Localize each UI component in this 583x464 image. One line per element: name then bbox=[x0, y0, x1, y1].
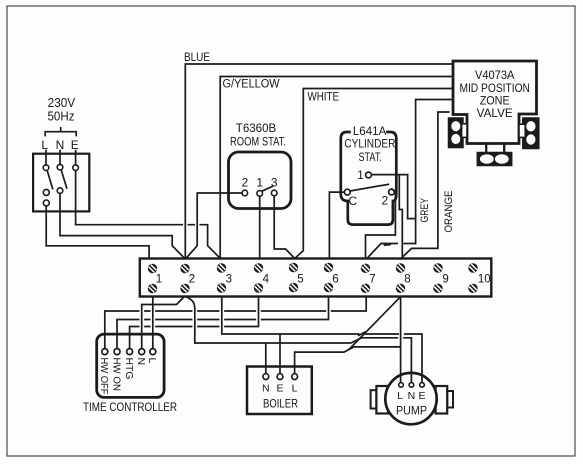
svg-text:BOILER: BOILER bbox=[263, 399, 298, 411]
cylinder stat switch arm bbox=[350, 184, 388, 191]
cylinder stat terminal 1 bbox=[366, 172, 372, 178]
wire TC L to terminal 1 bbox=[152, 297, 154, 349]
boiler L run to pump feed bbox=[295, 347, 401, 374]
svg-text:T6360B: T6360B bbox=[236, 123, 277, 135]
wire TC HTG to terminal 4 bbox=[130, 297, 259, 349]
mains terminal L bbox=[43, 165, 49, 171]
svg-text:2: 2 bbox=[381, 194, 388, 208]
wire room stat 2 to terminal 2 bbox=[187, 193, 242, 258]
svg-text:L: L bbox=[146, 358, 158, 364]
svg-text:CYLINDER: CYLINDER bbox=[344, 139, 395, 151]
svg-text:L641A: L641A bbox=[353, 126, 387, 138]
svg-text:6: 6 bbox=[332, 274, 338, 286]
TC terminal HW ON bbox=[114, 349, 120, 355]
valve right flange bbox=[523, 118, 539, 149]
earth run terminal 3 to boiler E and pump E bbox=[222, 297, 422, 383]
wire BLUE from valve to terminal 2 bbox=[185, 64, 453, 258]
svg-text:50Hz: 50Hz bbox=[48, 109, 75, 123]
svg-text:4: 4 bbox=[263, 274, 270, 286]
svg-text:VALVE: VALVE bbox=[477, 108, 513, 120]
pump terminal N bbox=[409, 383, 414, 388]
svg-text:E: E bbox=[71, 138, 79, 152]
screws terminal 4 bbox=[254, 263, 263, 292]
svg-text:1: 1 bbox=[256, 176, 263, 190]
svg-text:L: L bbox=[292, 383, 298, 395]
svg-text:5: 5 bbox=[297, 274, 303, 286]
valve right stub bbox=[519, 124, 525, 137]
valve left stub bbox=[462, 124, 467, 138]
svg-text:L: L bbox=[41, 138, 48, 152]
wire mains E to terminal 3 with hops bbox=[76, 171, 220, 258]
screws terminal 8 bbox=[396, 263, 405, 293]
screws terminal 7 bbox=[361, 264, 370, 293]
svg-text:HW OFF: HW OFF bbox=[98, 358, 110, 395]
pump terminal L bbox=[399, 383, 404, 388]
room stat terminal 2 bbox=[242, 190, 248, 196]
screws terminal 5 bbox=[289, 263, 298, 292]
cylinder stat L641A body bbox=[341, 132, 397, 225]
boiler terminal E bbox=[277, 374, 283, 380]
boiler terminal N bbox=[263, 374, 269, 380]
room stat terminal 3 bbox=[271, 190, 277, 196]
svg-text:10: 10 bbox=[478, 274, 491, 286]
wire GREY horizontal to terminal 7 with hop bbox=[368, 244, 416, 258]
screws terminal 2 bbox=[180, 264, 189, 293]
svg-text:PUMP: PUMP bbox=[396, 404, 427, 418]
svg-text:ORANGE: ORANGE bbox=[443, 191, 455, 233]
svg-text:3: 3 bbox=[271, 176, 278, 190]
svg-text:G/YELLOW: G/YELLOW bbox=[223, 79, 280, 91]
wire mains L to terminal 1 bbox=[46, 206, 149, 258]
valve left flange bbox=[449, 118, 464, 148]
pump terminal E bbox=[420, 383, 425, 388]
valve bottom neck bbox=[486, 144, 504, 153]
screws terminal 1 bbox=[148, 264, 157, 293]
svg-text:ZONE: ZONE bbox=[480, 96, 510, 108]
time controller box bbox=[97, 334, 164, 397]
pump body bbox=[385, 373, 436, 424]
svg-text:BLUE: BLUE bbox=[184, 52, 210, 64]
TC terminal L bbox=[150, 349, 156, 355]
TC terminal HTG bbox=[127, 349, 133, 355]
mains terminal E bbox=[73, 165, 79, 171]
mains bracket bbox=[45, 128, 76, 136]
mains switch blade N bbox=[61, 170, 66, 188]
mains switch blade L bbox=[47, 171, 52, 189]
wire mains N to terminal 2 bbox=[60, 193, 184, 257]
wire TC HW OFF to terminal 7 bbox=[105, 297, 366, 349]
wire ORANGE from valve down to terminal 8 bbox=[402, 112, 449, 258]
svg-text:L: L bbox=[397, 390, 403, 402]
wire cyl stat 1 branch to grey bbox=[408, 175, 416, 219]
valve bottom flange bbox=[477, 153, 511, 166]
svg-text:1: 1 bbox=[357, 168, 364, 182]
svg-text:N: N bbox=[56, 138, 65, 152]
screws terminal 6 bbox=[324, 263, 333, 292]
svg-text:E: E bbox=[418, 390, 425, 402]
wire E label stub bbox=[75, 151, 77, 165]
wire cyl stat C to terminal 6 bbox=[329, 192, 344, 258]
boiler terminal L bbox=[292, 374, 298, 380]
wire cyl stat 1 to terminal 8 with jog bbox=[371, 175, 407, 259]
wire G/YELLOW from valve to terminal 3 bbox=[220, 77, 453, 258]
cylinder stat terminal C bbox=[344, 189, 350, 195]
wire TC N to terminal 2 bbox=[142, 297, 185, 349]
svg-text:3: 3 bbox=[226, 274, 232, 286]
room stat terminal 1 bbox=[257, 191, 263, 197]
diagonal terminal 8 to boiler L run bbox=[350, 297, 401, 349]
wire N label stub bbox=[59, 151, 61, 165]
neutral run to boiler N and pump N bbox=[195, 338, 412, 383]
svg-text:N: N bbox=[135, 358, 147, 366]
mains supply box 230V 50Hz bbox=[33, 154, 89, 212]
screws terminal 9 bbox=[433, 263, 442, 293]
mains fuse circles L bbox=[43, 189, 49, 195]
pump right tab bbox=[447, 391, 453, 408]
pump left tab bbox=[371, 390, 377, 408]
svg-text:TIME CONTROLLER: TIME CONTROLLER bbox=[83, 400, 177, 414]
wire room stat 1 to terminal 4 bbox=[259, 196, 261, 258]
svg-text:GREY: GREY bbox=[419, 197, 431, 222]
hop dash on grey run bbox=[385, 244, 391, 247]
cylinder stat terminal 2 bbox=[389, 189, 395, 195]
svg-text:2: 2 bbox=[241, 176, 248, 190]
mains terminal N bbox=[57, 164, 63, 170]
wire TC HW ON to terminal 6 bbox=[117, 297, 329, 349]
svg-text:2: 2 bbox=[189, 274, 195, 286]
svg-text:HTG: HTG bbox=[123, 358, 135, 380]
svg-text:STAT.: STAT. bbox=[358, 152, 382, 164]
svg-text:V4073A: V4073A bbox=[475, 70, 515, 82]
wire GREY from valve down bbox=[416, 100, 453, 244]
zone valve V4073A actuator box bbox=[453, 61, 537, 144]
terminal strip bbox=[140, 259, 492, 297]
room stat T6360B box bbox=[229, 152, 292, 209]
svg-text:HW ON: HW ON bbox=[110, 358, 122, 392]
wire L label stub bbox=[45, 151, 47, 165]
svg-text:7: 7 bbox=[369, 274, 375, 286]
svg-text:ROOM STAT.: ROOM STAT. bbox=[230, 137, 286, 149]
svg-text:8: 8 bbox=[404, 274, 410, 286]
terminal strip screws bbox=[148, 263, 478, 293]
svg-text:9: 9 bbox=[442, 274, 448, 286]
wire room stat 3 to terminal 5 bbox=[274, 196, 294, 258]
svg-text:C: C bbox=[348, 194, 357, 208]
boiler box bbox=[247, 367, 312, 415]
svg-text:1: 1 bbox=[156, 274, 162, 286]
svg-text:N: N bbox=[408, 390, 416, 402]
svg-text:230V: 230V bbox=[48, 96, 76, 110]
TC terminal N bbox=[139, 349, 145, 355]
wire cyl stat 2 to terminal 7 bbox=[366, 189, 396, 258]
terminal 8 down to pump L bbox=[400, 297, 402, 383]
wire terminal 2 down to neutral run bbox=[186, 297, 194, 343]
screws terminal 10 bbox=[468, 263, 477, 293]
wire WHITE from valve to terminal 5 bbox=[296, 89, 453, 258]
svg-text:N: N bbox=[262, 383, 270, 395]
screws terminal 3 bbox=[217, 263, 226, 292]
TC terminal HW OFF bbox=[102, 349, 108, 355]
svg-text:WHITE: WHITE bbox=[308, 92, 340, 104]
room stat switch arm bbox=[262, 186, 273, 191]
svg-text:E: E bbox=[276, 383, 283, 395]
svg-text:MID POSITION: MID POSITION bbox=[459, 83, 530, 95]
